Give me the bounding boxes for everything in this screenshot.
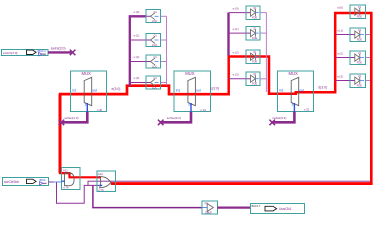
svg-text:in1: in1 [279, 88, 284, 92]
flip-flop FD e(2) [246, 50, 260, 64]
svg-text:slwClkStrb: slwClkStrb [4, 180, 19, 184]
svg-text:FDE: FDE [252, 82, 257, 86]
svg-text:MUX: MUX [289, 71, 299, 76]
port glyph: switch input pentagon [27, 50, 37, 54]
flip-flop FD e(1) [246, 26, 260, 40]
svg-text:n:32: n:32 [304, 107, 310, 111]
svg-text:s:(2): s:(2) [337, 51, 343, 55]
wire: latch column2 input bus (purple upper part) [227, 13, 229, 56]
node: X bus end connector swInt [70, 50, 76, 56]
svg-text:e(3:0): e(3:0) [112, 87, 121, 91]
wire: mux3 select bus [272, 112, 295, 123]
svg-text:LDC: LDC [152, 19, 157, 23]
wire: latch column1 input bus [130, 16, 147, 86]
flip-flop FD e(0) [246, 6, 260, 20]
latch LD s(0) [146, 10, 161, 24]
port glyph: output pentagon [265, 206, 277, 211]
svg-text:swInt(3:0): swInt(3:0) [51, 46, 66, 50]
svg-text:A12: A12 [98, 172, 103, 176]
gate OR2 G2 [97, 171, 116, 192]
svg-text:LDC: LDC [152, 43, 157, 47]
svg-text:d(3:0): d(3:0) [318, 86, 327, 90]
wire: branch to OBUF (thick) [93, 186, 202, 208]
buffer IBUF4 [37, 49, 46, 56]
latch LD s(2) [146, 55, 161, 69]
wire: clkstrobe to gate1 [48, 181, 53, 183]
svg-text:s:(0): s:(0) [134, 10, 140, 14]
node: input port switch[3:0] [2, 49, 49, 55]
svg-text:swSel(1:0): swSel(1:0) [64, 116, 78, 120]
wire: col3 output stubs [366, 35, 371, 81]
flip-flop FD d(1) [350, 28, 366, 42]
svg-text:s:(3): s:(3) [337, 74, 343, 78]
mux M2 [174, 71, 210, 112]
svg-text:n:76: n:76 [98, 188, 104, 192]
wire: mux2 select blue stub [190, 103, 192, 112]
svg-text:s:(2): s:(2) [134, 55, 140, 59]
svg-text:e:(1): e:(1) [233, 27, 239, 31]
svg-text:in1: in1 [176, 88, 181, 92]
svg-text:e:(2): e:(2) [233, 50, 239, 54]
wire: bus swInt(3:0) [48, 51, 71, 53]
svg-text:s:(0): s:(0) [337, 5, 343, 9]
svg-text:LDC: LDC [152, 86, 157, 90]
wire: mux1 select blue stub [86, 103, 88, 112]
svg-text:n:31: n:31 [201, 108, 207, 112]
mux M1 [71, 71, 107, 112]
svg-text:FDE: FDE [357, 84, 362, 88]
svg-text:FDE: FDE [252, 36, 257, 40]
svg-text:LDC: LDC [152, 65, 157, 69]
wire: red gate1 to gate2 segment [60, 172, 101, 178]
svg-text:UswClk1: UswClk1 [279, 207, 292, 211]
svg-text:FDE: FDE [252, 16, 257, 20]
svg-text:out: out [299, 88, 304, 92]
svg-text:FDE: FDE [357, 61, 362, 65]
latch LD s(3) [146, 76, 161, 90]
svg-text:FDE: FDE [252, 60, 257, 64]
svg-text:out: out [196, 88, 201, 92]
wire: col2 output collector [260, 13, 266, 92]
node: X connector swSel(5:4) [269, 120, 275, 126]
wire: mux3 select blue stub [293, 103, 295, 112]
svg-text:FDE: FDE [357, 38, 362, 42]
node: output port swClk [251, 203, 305, 213]
svg-text:IBUF: IBUF [39, 178, 46, 182]
svg-text:A11: A11 [63, 168, 68, 172]
svg-text:n:76: n:76 [63, 186, 69, 190]
flip-flop FD d(3) [350, 74, 366, 88]
svg-text:MUX: MUX [185, 71, 195, 76]
wire: col1 output collector [161, 16, 167, 85]
svg-text:s(3:0): s(3:0) [210, 86, 219, 90]
wire: col3 taps [335, 35, 355, 81]
node: X connector swSel(3:2) [158, 120, 164, 126]
svg-text:s:(1): s:(1) [337, 28, 343, 32]
flip-flop FD d(2) [350, 51, 366, 65]
wire: col1 taps [130, 16, 151, 82]
latch LD s(1) [146, 34, 161, 48]
gate AND2 G1 [62, 167, 81, 189]
mux M3 [278, 71, 314, 112]
svg-text:FDE: FDE [357, 15, 362, 19]
flip-flop FD d(0) [350, 5, 366, 19]
wire: mux2 select bus [160, 112, 191, 123]
svg-text:s:(1): s:(1) [134, 34, 140, 38]
svg-text:swSel(5:4): swSel(5:4) [272, 116, 286, 120]
wire: OBUF output to port [217, 207, 250, 209]
wire: highlighted net (red) main loop [59, 12, 373, 184]
wire: clkstrobe branch to gate2 lower input [57, 182, 100, 203]
buffer OBUF [202, 201, 217, 214]
svg-text:switch[3:0]: switch[3:0] [3, 51, 18, 55]
svg-text:e:(0): e:(0) [233, 6, 239, 10]
svg-text:s:(3): s:(3) [134, 76, 140, 80]
port glyph: slowClkStrobe pentagon [27, 179, 37, 183]
buffer IBUF [39, 178, 46, 185]
svg-text:in1: in1 [72, 88, 77, 92]
svg-text:swSel(3:2): swSel(3:2) [167, 116, 181, 120]
wire: col2 taps [229, 13, 251, 79]
wire: mux1 select bus [61, 112, 88, 123]
svg-text:MUX: MUX [82, 71, 92, 76]
svg-text:BUF1:T: BUF1:T [252, 204, 261, 208]
node: X connector swSel(1:0) [59, 120, 65, 126]
svg-text:OBUF: OBUF [205, 210, 213, 214]
node: input port slowClkStrobe [3, 177, 49, 185]
svg-text:n:30: n:30 [97, 108, 103, 112]
svg-text:e:(3): e:(3) [233, 73, 239, 77]
svg-text:out: out [92, 88, 97, 92]
wire: gate1 lower input blue stub [62, 180, 65, 182]
wire: gate2 lower input blue stub [99, 184, 102, 186]
wire: thin purple line above bottom red bus [88, 181, 370, 185]
flip-flop FD e(3) [246, 72, 260, 86]
